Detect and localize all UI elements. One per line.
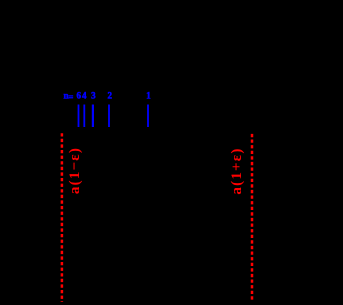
svg-text:=: = <box>68 92 73 102</box>
svg-text:2: 2 <box>107 91 112 101</box>
svg-text:a(1−ε): a(1−ε) <box>67 147 83 194</box>
svg-text:6: 6 <box>76 91 81 101</box>
svg-text:4: 4 <box>82 91 87 101</box>
svg-text:3: 3 <box>91 91 96 101</box>
svg-text:a(1+ε): a(1+ε) <box>229 147 245 194</box>
svg-text:1: 1 <box>146 91 151 101</box>
